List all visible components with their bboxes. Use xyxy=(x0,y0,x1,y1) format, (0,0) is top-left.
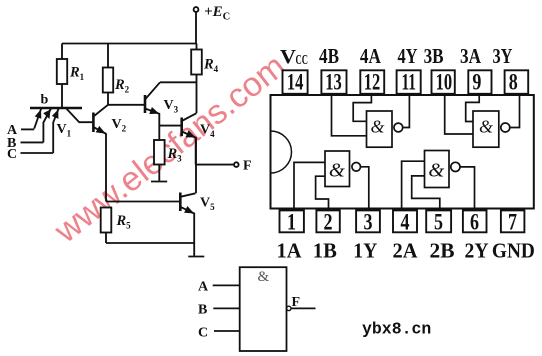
svg-text:F: F xyxy=(243,159,252,174)
pin number 7 xyxy=(508,210,517,235)
pin number 13 xyxy=(325,69,342,94)
svg-text:V: V xyxy=(280,46,297,68)
wire V5 emitter to ground xyxy=(193,243,195,256)
pin box 7 xyxy=(501,210,525,232)
svg-text:13: 13 xyxy=(325,69,342,94)
gate U1 body xyxy=(325,151,350,187)
label V4 xyxy=(200,123,215,140)
label input C xyxy=(7,147,17,162)
label 4A xyxy=(360,44,381,68)
svg-text:6: 6 xyxy=(470,210,479,235)
watermark www.elecfans.com xyxy=(47,47,293,251)
wire pin10 to U3 xyxy=(445,94,473,134)
pin box 11 xyxy=(397,70,421,94)
svg-text:1A: 1A xyxy=(277,238,302,262)
pin number 14 xyxy=(287,69,304,94)
site text ybx8.cn xyxy=(362,320,431,339)
svg-text:4Y: 4Y xyxy=(398,44,418,68)
wire top rail xyxy=(62,43,196,45)
svg-text:10: 10 xyxy=(436,69,453,94)
svg-text:V2: V2 xyxy=(112,117,127,134)
label 4B xyxy=(319,44,339,68)
label & U2 xyxy=(428,160,444,182)
label input B xyxy=(7,136,16,151)
svg-text:3Y: 3Y xyxy=(493,44,513,68)
label 1B xyxy=(313,238,337,262)
svg-text:2: 2 xyxy=(324,210,333,235)
svg-text:4: 4 xyxy=(401,210,410,235)
svg-text:3B: 3B xyxy=(424,44,444,68)
gate U4 body xyxy=(367,111,393,147)
pin number 2 xyxy=(324,210,333,235)
pin box 9 xyxy=(468,70,491,94)
pin box 4 xyxy=(393,210,417,232)
svg-text:3A: 3A xyxy=(460,44,481,68)
wire input C xyxy=(21,152,54,154)
+Ec supply terminal xyxy=(194,7,199,43)
wire U3 output to pin8 xyxy=(510,94,520,128)
transistor V1 multi-emitter xyxy=(30,108,93,153)
svg-text:&: & xyxy=(370,117,384,137)
svg-text:14: 14 xyxy=(287,69,304,94)
svg-text:&: & xyxy=(428,160,444,182)
label gate B xyxy=(198,303,207,318)
svg-text:R5: R5 xyxy=(116,213,132,231)
label V3 xyxy=(164,98,179,115)
svg-text:3: 3 xyxy=(364,210,373,235)
label & U1 xyxy=(329,160,345,182)
label b xyxy=(41,93,49,108)
pin box 5 xyxy=(426,210,451,232)
svg-text:11: 11 xyxy=(401,69,416,94)
label 3B xyxy=(424,44,444,68)
ground below V5 xyxy=(188,256,204,258)
pin box 1 xyxy=(280,210,304,232)
label R4 xyxy=(203,57,219,75)
gate body (3-input NAND) xyxy=(240,267,287,351)
pin number 3 xyxy=(364,210,373,235)
svg-text:A: A xyxy=(198,280,209,295)
svg-text:+EC: +EC xyxy=(204,4,230,23)
svg-text:B: B xyxy=(198,303,207,318)
svg-text:V1: V1 xyxy=(57,122,72,139)
label 3A xyxy=(460,44,481,68)
pin box 13 xyxy=(321,70,346,94)
label 1Y xyxy=(353,238,377,262)
left circuit labels xyxy=(7,4,252,231)
wire pin12 to U4 xyxy=(353,94,371,122)
wire pin2 to U1 xyxy=(316,176,329,210)
gate U3 bubble xyxy=(501,123,510,132)
BOTTOM GATE SYMBOL xyxy=(213,267,316,351)
resistor R2 xyxy=(103,44,113,105)
pin number 1 xyxy=(287,210,296,235)
label Vcc xyxy=(280,46,308,68)
pin number 9 xyxy=(472,69,481,94)
wire gate input A xyxy=(213,284,240,286)
wire U1 output to pin3 xyxy=(361,167,369,211)
resistor R5 xyxy=(101,208,112,244)
label & of gate xyxy=(258,269,270,285)
transistor V2 xyxy=(93,105,108,202)
wire V4 emitter to V5 collector xyxy=(195,138,197,194)
IC notch xyxy=(271,131,292,173)
pin box 3 xyxy=(356,210,380,232)
wire gate output F xyxy=(291,307,315,309)
wire U2 output to pin6 xyxy=(460,167,475,211)
gate U1 bubble xyxy=(352,163,361,172)
svg-text:R4: R4 xyxy=(203,57,219,75)
svg-text:4A: 4A xyxy=(360,44,381,68)
svg-text:CC: CC xyxy=(296,53,309,68)
pin box 12 xyxy=(360,70,384,94)
pin box 6 xyxy=(463,210,487,232)
label & U3 xyxy=(479,117,493,137)
svg-text:7: 7 xyxy=(508,210,517,235)
svg-text:&: & xyxy=(258,269,270,285)
wire pin4 to U2 xyxy=(402,161,425,210)
label R5 xyxy=(116,213,132,231)
svg-text:2Y: 2Y xyxy=(465,238,489,262)
svg-text:4B: 4B xyxy=(319,44,339,68)
ground below R3 xyxy=(151,181,167,183)
pin number 6 xyxy=(470,210,479,235)
label 4Y xyxy=(398,44,418,68)
label input A xyxy=(7,123,18,138)
label gate C xyxy=(198,326,208,341)
pin number 4 xyxy=(401,210,410,235)
pin box 10 xyxy=(432,70,455,94)
label V5 xyxy=(200,196,215,213)
svg-text:&: & xyxy=(329,160,345,182)
resistor R4 xyxy=(191,44,202,114)
svg-text:F: F xyxy=(292,295,301,310)
label gate A xyxy=(198,280,209,295)
LEFT CIRCUIT xyxy=(21,7,239,256)
wire V5 base line xyxy=(106,201,180,203)
gate U2 body xyxy=(425,151,450,188)
svg-text:V3: V3 xyxy=(164,98,179,115)
gate U3 body xyxy=(473,111,499,147)
svg-text:b: b xyxy=(41,93,49,108)
pin number 5 xyxy=(434,210,443,235)
label 2A xyxy=(393,238,418,262)
pin number 11 xyxy=(401,69,416,94)
svg-text:R2: R2 xyxy=(114,77,130,95)
label R3 xyxy=(167,146,183,164)
svg-text:ybx8.cn: ybx8.cn xyxy=(362,320,431,339)
svg-text:1: 1 xyxy=(287,210,296,235)
wire pin9 to U3 xyxy=(466,94,480,122)
gate output bubble xyxy=(287,306,291,310)
svg-text:9: 9 xyxy=(472,69,481,94)
pin number 8 xyxy=(509,69,518,94)
label R2 xyxy=(114,77,130,95)
svg-text:2A: 2A xyxy=(393,238,418,262)
label V1 xyxy=(57,122,72,139)
label F xyxy=(243,159,252,174)
transistor V5 xyxy=(180,193,195,244)
wire bottom return xyxy=(106,242,194,244)
label GND xyxy=(492,238,535,262)
terminal F xyxy=(234,162,239,167)
wire input B xyxy=(21,141,44,143)
wire input A xyxy=(21,128,34,130)
IC PINOUT DIAGRAM xyxy=(271,95,534,209)
wire V3 collector to R4 node xyxy=(160,81,197,83)
svg-text:8: 8 xyxy=(509,69,518,94)
label gate F xyxy=(292,295,301,310)
resistor R1 xyxy=(57,44,67,108)
pin box 2 xyxy=(316,210,339,232)
label R1 xyxy=(69,65,85,83)
IC body xyxy=(271,95,534,209)
svg-text:GND: GND xyxy=(492,238,535,262)
label 3Y xyxy=(493,44,513,68)
wire V3 emitter to V4 base xyxy=(159,125,181,127)
wire V2 collector to V3 base xyxy=(108,104,145,106)
svg-text:2B: 2B xyxy=(430,238,455,262)
svg-text:5: 5 xyxy=(434,210,443,235)
svg-text:C: C xyxy=(198,326,208,341)
wire pin1 to U1 xyxy=(294,162,325,210)
wire pin5 to U2 xyxy=(412,176,440,211)
wire pin13 to U4 xyxy=(332,94,367,136)
svg-text:C: C xyxy=(7,147,17,162)
transistor V3 xyxy=(145,82,160,140)
resistor R3 xyxy=(154,140,165,181)
wire gate input C xyxy=(214,330,240,332)
svg-text:12: 12 xyxy=(364,69,381,94)
pin number 10 xyxy=(436,69,453,94)
svg-text:1B: 1B xyxy=(313,238,337,262)
gate U2 bubble xyxy=(451,162,460,171)
wire output F xyxy=(196,164,234,166)
pin box 14 xyxy=(283,70,308,94)
wire U4 output to pin11 xyxy=(403,94,410,128)
svg-text:V5: V5 xyxy=(200,196,215,213)
label 1A xyxy=(277,238,302,262)
pin number 12 xyxy=(364,69,381,94)
label & U4 xyxy=(370,117,384,137)
svg-text:1Y: 1Y xyxy=(353,238,377,262)
transistor V4 xyxy=(182,113,197,164)
gate U4 bubble xyxy=(394,123,403,132)
label V2 xyxy=(112,117,127,134)
label +Ec xyxy=(204,4,230,23)
label 2B xyxy=(430,238,455,262)
label 2Y xyxy=(465,238,489,262)
svg-text:&: & xyxy=(479,117,493,137)
pin box 8 xyxy=(505,70,529,94)
svg-text:R1: R1 xyxy=(69,65,85,83)
wire gate input B xyxy=(213,307,239,309)
